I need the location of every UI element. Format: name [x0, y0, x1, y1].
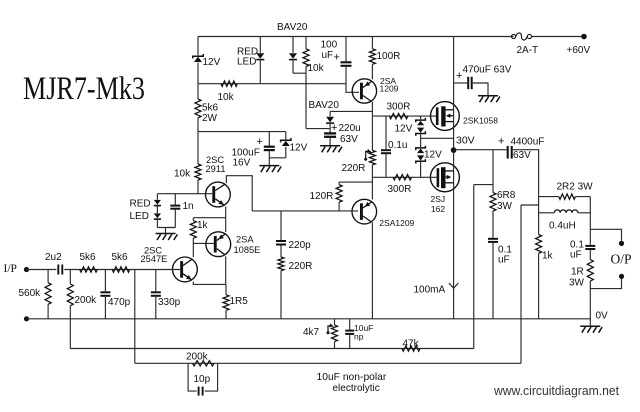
label LED bias	[130, 211, 149, 222]
label 5k6	[202, 103, 219, 114]
trimmer R 220R preset	[364, 149, 375, 165]
svg-text:2SJ: 2SJ	[431, 194, 446, 204]
label plus 220u	[331, 122, 337, 134]
label 63V 4400uF	[513, 150, 531, 161]
svg-text:47k: 47k	[403, 339, 420, 350]
label 4k7	[303, 327, 320, 338]
svg-text:1n: 1n	[183, 201, 194, 212]
wire 4400uF to node X	[513, 150, 539, 235]
capacitor C 220u 63V	[324, 133, 336, 136]
label 30V	[456, 135, 475, 147]
fuse F1 2A-T	[511, 33, 531, 40]
diode LED bias 1	[154, 194, 161, 206]
resistor R 5k6 second	[112, 267, 130, 272]
label 200k input	[75, 295, 98, 306]
diode D2 BAV20	[289, 53, 297, 59]
svg-text:2SK1058: 2SK1058	[463, 116, 498, 126]
svg-text:2R2 3W: 2R2 3W	[557, 182, 594, 193]
wire output right vertical	[589, 197, 591, 230]
svg-text:+: +	[334, 52, 340, 64]
svg-text:162: 162	[431, 204, 445, 214]
label LED top	[237, 57, 256, 68]
label 2SA1209 VAS	[379, 218, 414, 228]
label 10uF non-polar note	[317, 372, 387, 383]
ground LED bias	[156, 234, 178, 241]
label 10k bias row	[218, 92, 235, 103]
label 1R5	[230, 296, 249, 307]
label 220u	[339, 123, 361, 134]
resistor R 120R	[336, 182, 342, 211]
svg-text:1085E: 1085E	[234, 245, 261, 255]
svg-text:100: 100	[321, 40, 338, 51]
wire 1085 collector down	[225, 256, 227, 284]
svg-text:2A-T: 2A-T	[517, 45, 539, 56]
resistor R 300R upper	[389, 113, 407, 118]
resistor R 1R 3W	[587, 260, 593, 319]
zener D 12V mid	[281, 132, 291, 158]
ground 470uF	[478, 96, 500, 103]
svg-text:560k: 560k	[19, 288, 42, 299]
wire VAS vertical upper	[371, 116, 373, 150]
resistor R 10k top	[303, 49, 309, 67]
svg-text:3W: 3W	[497, 201, 513, 212]
label 330p	[158, 297, 181, 308]
wire left rail below 10k	[197, 180, 199, 194]
transistor M2 2SJ162	[430, 163, 459, 192]
wire 220u bottom lead	[329, 138, 331, 146]
wire feedback row A	[70, 348, 473, 350]
capacitor C 470p	[100, 270, 110, 319]
svg-text:www.circuitdiagram.net: www.circuitdiagram.net	[493, 383, 619, 398]
transistor Q5 2SC2547E	[173, 257, 198, 282]
label 2SA first	[380, 76, 396, 86]
label 2W	[202, 113, 218, 124]
wire 1k to base node	[192, 238, 194, 257]
svg-text:330p: 330p	[158, 297, 181, 308]
svg-text:2911: 2911	[206, 164, 226, 174]
wire left rail upper segment	[197, 37, 199, 56]
capacitor C 470uF 63V	[454, 77, 488, 96]
wire drop to 220u junction	[306, 128, 330, 130]
label 2SC 2911a	[206, 155, 224, 165]
wire 2547 emitter path	[193, 282, 225, 285]
svg-text:2SA: 2SA	[236, 235, 254, 245]
svg-text:220R: 220R	[289, 261, 313, 272]
wire zener mid to source	[421, 137, 454, 139]
label 2SC 2547a	[144, 246, 162, 256]
resistor R 1k output	[536, 235, 542, 319]
label 4400uF	[511, 137, 545, 148]
svg-text:1209: 1209	[380, 84, 399, 94]
label 10k left	[174, 169, 191, 180]
wire BAV20 D2 top lead	[292, 37, 294, 53]
wire BAV20 2 top lead	[329, 111, 331, 116]
svg-text:+: +	[456, 70, 462, 82]
wire emitters join	[225, 207, 227, 233]
capacitor C 100uF	[341, 62, 352, 66]
label 1n	[183, 201, 194, 212]
node OP minus terminal	[619, 274, 624, 279]
label BAV20 top	[277, 22, 308, 33]
label 1209 first	[380, 84, 399, 94]
label RED top	[237, 47, 258, 58]
wire ground stem 0V	[589, 319, 591, 326]
label 63V 220u	[340, 134, 358, 145]
label 12V lower zeners	[424, 150, 442, 161]
transistor Q3 2SC2911	[206, 182, 231, 207]
svg-text:2547E: 2547E	[141, 254, 168, 264]
label plus 4400uF	[498, 136, 504, 148]
resistor R 10k bias row	[221, 81, 237, 86]
wire to OP terminal	[590, 229, 621, 241]
svg-text:100R: 100R	[377, 51, 401, 62]
zener pair D 12V lower	[416, 146, 426, 178]
label 3W 1R	[569, 278, 585, 289]
svg-text:4k7: 4k7	[303, 327, 320, 338]
resistor R 200k feedback	[193, 361, 215, 366]
svg-text:+60V: +60V	[567, 45, 591, 56]
wire left rail below zener	[197, 63, 199, 99]
label plus 470uF	[456, 70, 462, 82]
capacitor C 10p	[188, 363, 218, 395]
svg-text:220u: 220u	[339, 123, 361, 134]
label RED bias	[130, 199, 151, 210]
wire 2SJ gate row	[372, 176, 436, 178]
wire 12V reference row	[198, 131, 286, 133]
label 560k	[19, 288, 42, 299]
label 220R comp	[289, 261, 313, 272]
label 16V b	[233, 158, 251, 169]
label 12V upper zeners	[395, 124, 413, 135]
resistor R 47k	[402, 346, 420, 351]
capacitor C 0.1uF zobel	[488, 239, 498, 319]
wire left rail below 5k6	[197, 118, 199, 164]
svg-text:electrolytic: electrolytic	[333, 383, 380, 394]
label 1085E b	[234, 245, 261, 255]
svg-text:2u2: 2u2	[45, 252, 62, 263]
label 100 value	[321, 40, 338, 51]
label uF zobel	[498, 255, 510, 266]
label 2A-T	[517, 45, 539, 56]
svg-text:220R: 220R	[342, 163, 366, 174]
wire 10k bottom lead	[305, 67, 307, 74]
wire BAV20 2 row	[330, 110, 372, 112]
wire bias row	[198, 83, 346, 85]
svg-text:30V: 30V	[456, 135, 475, 147]
wire 0V rail	[27, 318, 591, 320]
wire feedback takeoff stub	[474, 184, 493, 186]
svg-text:np: np	[354, 332, 364, 342]
wire 2SK gate row	[372, 115, 436, 117]
label 0.1u gate	[388, 140, 407, 151]
label 2SJ	[431, 194, 446, 204]
label 1R	[571, 267, 584, 278]
wire BAV20 D2 bottom lead	[292, 61, 294, 74]
wire BAV20 2 bottom lead	[329, 124, 331, 133]
svg-text:BAV20: BAV20	[277, 22, 308, 33]
inductor L 0.4uH	[539, 210, 591, 213]
transistor Q1 2SA1209 first	[352, 79, 376, 103]
label 47k	[403, 339, 420, 350]
label 1k output	[542, 251, 554, 262]
label 2R2 3W	[557, 182, 594, 193]
svg-text:LED: LED	[130, 211, 149, 222]
svg-text:10k: 10k	[174, 169, 191, 180]
svg-text:16V: 16V	[233, 158, 251, 169]
resistor R 2R2 3W	[539, 194, 591, 199]
wire OP minus lead	[590, 279, 621, 289]
svg-text:5k6: 5k6	[112, 252, 129, 263]
wire RED LED bottom lead	[259, 61, 261, 84]
svg-text:10p: 10p	[194, 374, 211, 385]
svg-text:2SA1209: 2SA1209	[379, 218, 414, 228]
resistor R 200k input	[67, 270, 73, 349]
label 2u2	[45, 252, 62, 263]
capacitor C 4400uF 63V	[508, 146, 512, 159]
node 30V dot	[451, 147, 457, 153]
label 120R	[310, 191, 334, 202]
capacitor C 2u2	[58, 265, 62, 275]
svg-text:120R: 120R	[310, 191, 334, 202]
label 2SK1058	[463, 116, 498, 126]
label 470p	[108, 297, 131, 308]
resistor R 300R lower	[393, 175, 412, 180]
capacitor C 10uF np	[345, 319, 354, 349]
label title MJR7-Mk3	[23, 71, 145, 107]
label 200k feedback	[186, 352, 209, 363]
label 0.1 output	[570, 240, 584, 251]
zener pair D 12V upper	[416, 116, 426, 138]
label uF value	[322, 50, 334, 61]
wire 100uF top lead	[345, 37, 347, 62]
svg-text:6R8: 6R8	[497, 190, 516, 201]
svg-text:LED: LED	[237, 57, 256, 68]
trimmer R 4k7 preset	[327, 319, 338, 349]
resistor R 5k6 2W	[195, 99, 201, 118]
capacitor C 220p	[276, 211, 286, 257]
resistor R 1k feedback	[190, 218, 196, 239]
svg-text:1k: 1k	[542, 251, 554, 262]
label 10p	[194, 374, 211, 385]
label 0V	[596, 310, 609, 321]
wire input row	[64, 269, 180, 271]
capacitor C 1n	[170, 194, 180, 228]
resistor R 10k left	[195, 164, 201, 180]
label 300R upper	[387, 102, 411, 113]
svg-text:2W: 2W	[202, 113, 218, 124]
label 0.1 zobel	[498, 245, 512, 256]
node input ground terminal	[24, 316, 29, 321]
svg-text:uF: uF	[322, 50, 334, 61]
node +60V terminal dot	[581, 34, 587, 40]
wire top rail right section	[532, 36, 585, 38]
ground 0V rail	[580, 326, 602, 333]
wire VAS base row	[252, 210, 358, 212]
svg-text:300R: 300R	[388, 184, 412, 195]
transistor M1 2SK1058	[431, 102, 460, 131]
wire junction drop to bias row	[305, 73, 307, 128]
label 5k6 second	[112, 252, 129, 263]
resistor R 220R comp	[278, 257, 284, 319]
label 10k top	[308, 63, 325, 74]
svg-text:200k: 200k	[186, 352, 209, 363]
svg-text:O/P: O/P	[611, 252, 632, 267]
label plus 100uF	[334, 52, 340, 64]
label 12V zener D1	[203, 57, 221, 68]
label 10uF np a	[354, 323, 373, 333]
capacitor C 100uF 16V	[264, 132, 275, 158]
label plus 100uF16	[257, 136, 263, 148]
label 162	[431, 204, 445, 214]
svg-text:1k: 1k	[197, 220, 209, 231]
svg-text:RED: RED	[130, 199, 151, 210]
svg-text:0V: 0V	[596, 310, 609, 321]
resistor R 100R	[369, 49, 375, 65]
wire input node drop	[134, 270, 136, 364]
wire zener lower link	[420, 138, 422, 147]
wire drain vertical	[453, 37, 455, 319]
wire 2911 collector jog	[226, 176, 252, 211]
ground 220u	[320, 146, 342, 153]
wire VAS collector down	[371, 222, 373, 318]
wire ground stem 100uF	[268, 158, 270, 165]
wire Q1 collector lead	[371, 102, 373, 116]
resistor R 1R5	[223, 284, 229, 318]
wire LED bottom lead	[156, 220, 158, 228]
wire diode-10k junction bar	[293, 72, 306, 74]
label 0.4uH	[549, 221, 576, 232]
node input terminal	[24, 267, 29, 272]
wire 120R link row	[339, 181, 372, 183]
svg-text:5k6: 5k6	[80, 252, 97, 263]
label 100mA	[414, 285, 446, 296]
wire input lead	[27, 269, 57, 271]
svg-text:3W: 3W	[569, 278, 585, 289]
diode LED bias 2	[154, 206, 161, 219]
label 470uF 63V	[463, 65, 512, 76]
diode RED LED top	[256, 53, 264, 59]
svg-text:1R: 1R	[571, 267, 584, 278]
svg-text:63V: 63V	[513, 150, 531, 161]
wire feedback row B	[135, 362, 521, 364]
svg-text:63V: 63V	[340, 134, 358, 145]
label 100uF 16V a	[232, 148, 260, 159]
svg-text:12V: 12V	[290, 143, 308, 154]
node OP plus terminal	[619, 241, 624, 246]
wire zener cap join	[269, 157, 286, 159]
svg-text:10uF non-polar: 10uF non-polar	[317, 372, 387, 383]
zener D1 12V	[193, 54, 203, 62]
label 12V mid	[290, 143, 308, 154]
svg-text:100mA: 100mA	[414, 285, 446, 296]
label electrolytic note	[333, 383, 380, 394]
svg-text:12V: 12V	[395, 124, 413, 135]
wire 1k stub	[193, 217, 225, 219]
label 5k6 first	[80, 252, 97, 263]
svg-text:200k: 200k	[75, 295, 98, 306]
svg-text:470p: 470p	[108, 297, 131, 308]
wire node X stub	[521, 204, 539, 206]
ground 100uF 16V	[259, 166, 281, 173]
resistor R 6R8 3W	[490, 150, 496, 238]
wire top +60V rail left section	[198, 36, 514, 38]
wire 1085 base stub	[193, 242, 214, 244]
wire 10k R top lead	[305, 37, 307, 49]
svg-text:470uF 63V: 470uF 63V	[463, 65, 512, 76]
wire LED 1n bottom bar	[157, 227, 175, 229]
svg-text:+: +	[331, 122, 337, 134]
svg-text:0.1u: 0.1u	[388, 140, 407, 151]
label 300R lower	[388, 184, 412, 195]
transistor Q2 2SA1085E	[206, 232, 231, 257]
label 1k feedback	[197, 220, 209, 231]
wire 100R to emitter	[371, 64, 373, 79]
label 6R8	[497, 190, 516, 201]
svg-text:10k: 10k	[308, 63, 325, 74]
label O/P	[611, 252, 632, 267]
svg-text:4400uF: 4400uF	[511, 137, 545, 148]
label 2911b	[206, 164, 226, 174]
transistor Q4 2SA1209 VAS	[352, 199, 377, 224]
svg-text:0.4uH: 0.4uH	[549, 221, 576, 232]
capacitor C 330p	[151, 270, 161, 319]
wire 100uF bottom lead	[346, 67, 359, 93]
label 220p	[289, 240, 312, 251]
resistor R 560k	[45, 270, 51, 319]
wire 2911 base row	[157, 193, 212, 195]
svg-text:uF: uF	[498, 255, 510, 266]
svg-text:BAV20: BAV20	[309, 100, 340, 111]
label 220R preset	[342, 163, 366, 174]
label uF output	[570, 250, 582, 261]
svg-text:1R5: 1R5	[230, 296, 249, 307]
wire 100R top lead	[371, 37, 373, 49]
label 2SA 1085a	[236, 235, 254, 245]
label BAV20 second	[309, 100, 340, 111]
svg-text:220p: 220p	[289, 240, 312, 251]
svg-text:uF: uF	[570, 250, 582, 261]
svg-text:I/P: I/P	[4, 263, 17, 275]
label +60V	[567, 45, 591, 56]
label np b	[354, 332, 364, 342]
capacitor C 0.1u gate	[381, 116, 391, 177]
resistor R 5k6 first	[80, 267, 98, 272]
wire 100mA arrow chevron	[449, 283, 458, 288]
svg-text:12V: 12V	[203, 57, 221, 68]
wire feedback vertical	[473, 185, 475, 349]
svg-text:MJR7-Mk3: MJR7-Mk3	[23, 71, 145, 107]
wire feedback lower vertical	[520, 205, 522, 363]
label 3W 6R8	[497, 201, 513, 212]
svg-text:+: +	[498, 136, 504, 148]
label 2547E b	[141, 254, 168, 264]
label website	[493, 383, 619, 398]
svg-text:12V: 12V	[424, 150, 442, 161]
label I/P	[4, 263, 17, 275]
svg-text:10k: 10k	[218, 92, 235, 103]
wire ground stem LED	[165, 228, 167, 234]
wire VAS vertical mid	[371, 165, 373, 200]
diode D3 BAV20 second	[326, 117, 334, 123]
svg-text:+: +	[257, 136, 263, 148]
svg-text:300R: 300R	[387, 102, 411, 113]
wire 30V row	[454, 149, 507, 151]
capacitor C 0.1uF output	[585, 229, 595, 259]
label 100R	[377, 51, 401, 62]
wire RED LED top lead	[259, 37, 261, 53]
svg-text:5k6: 5k6	[202, 103, 219, 114]
